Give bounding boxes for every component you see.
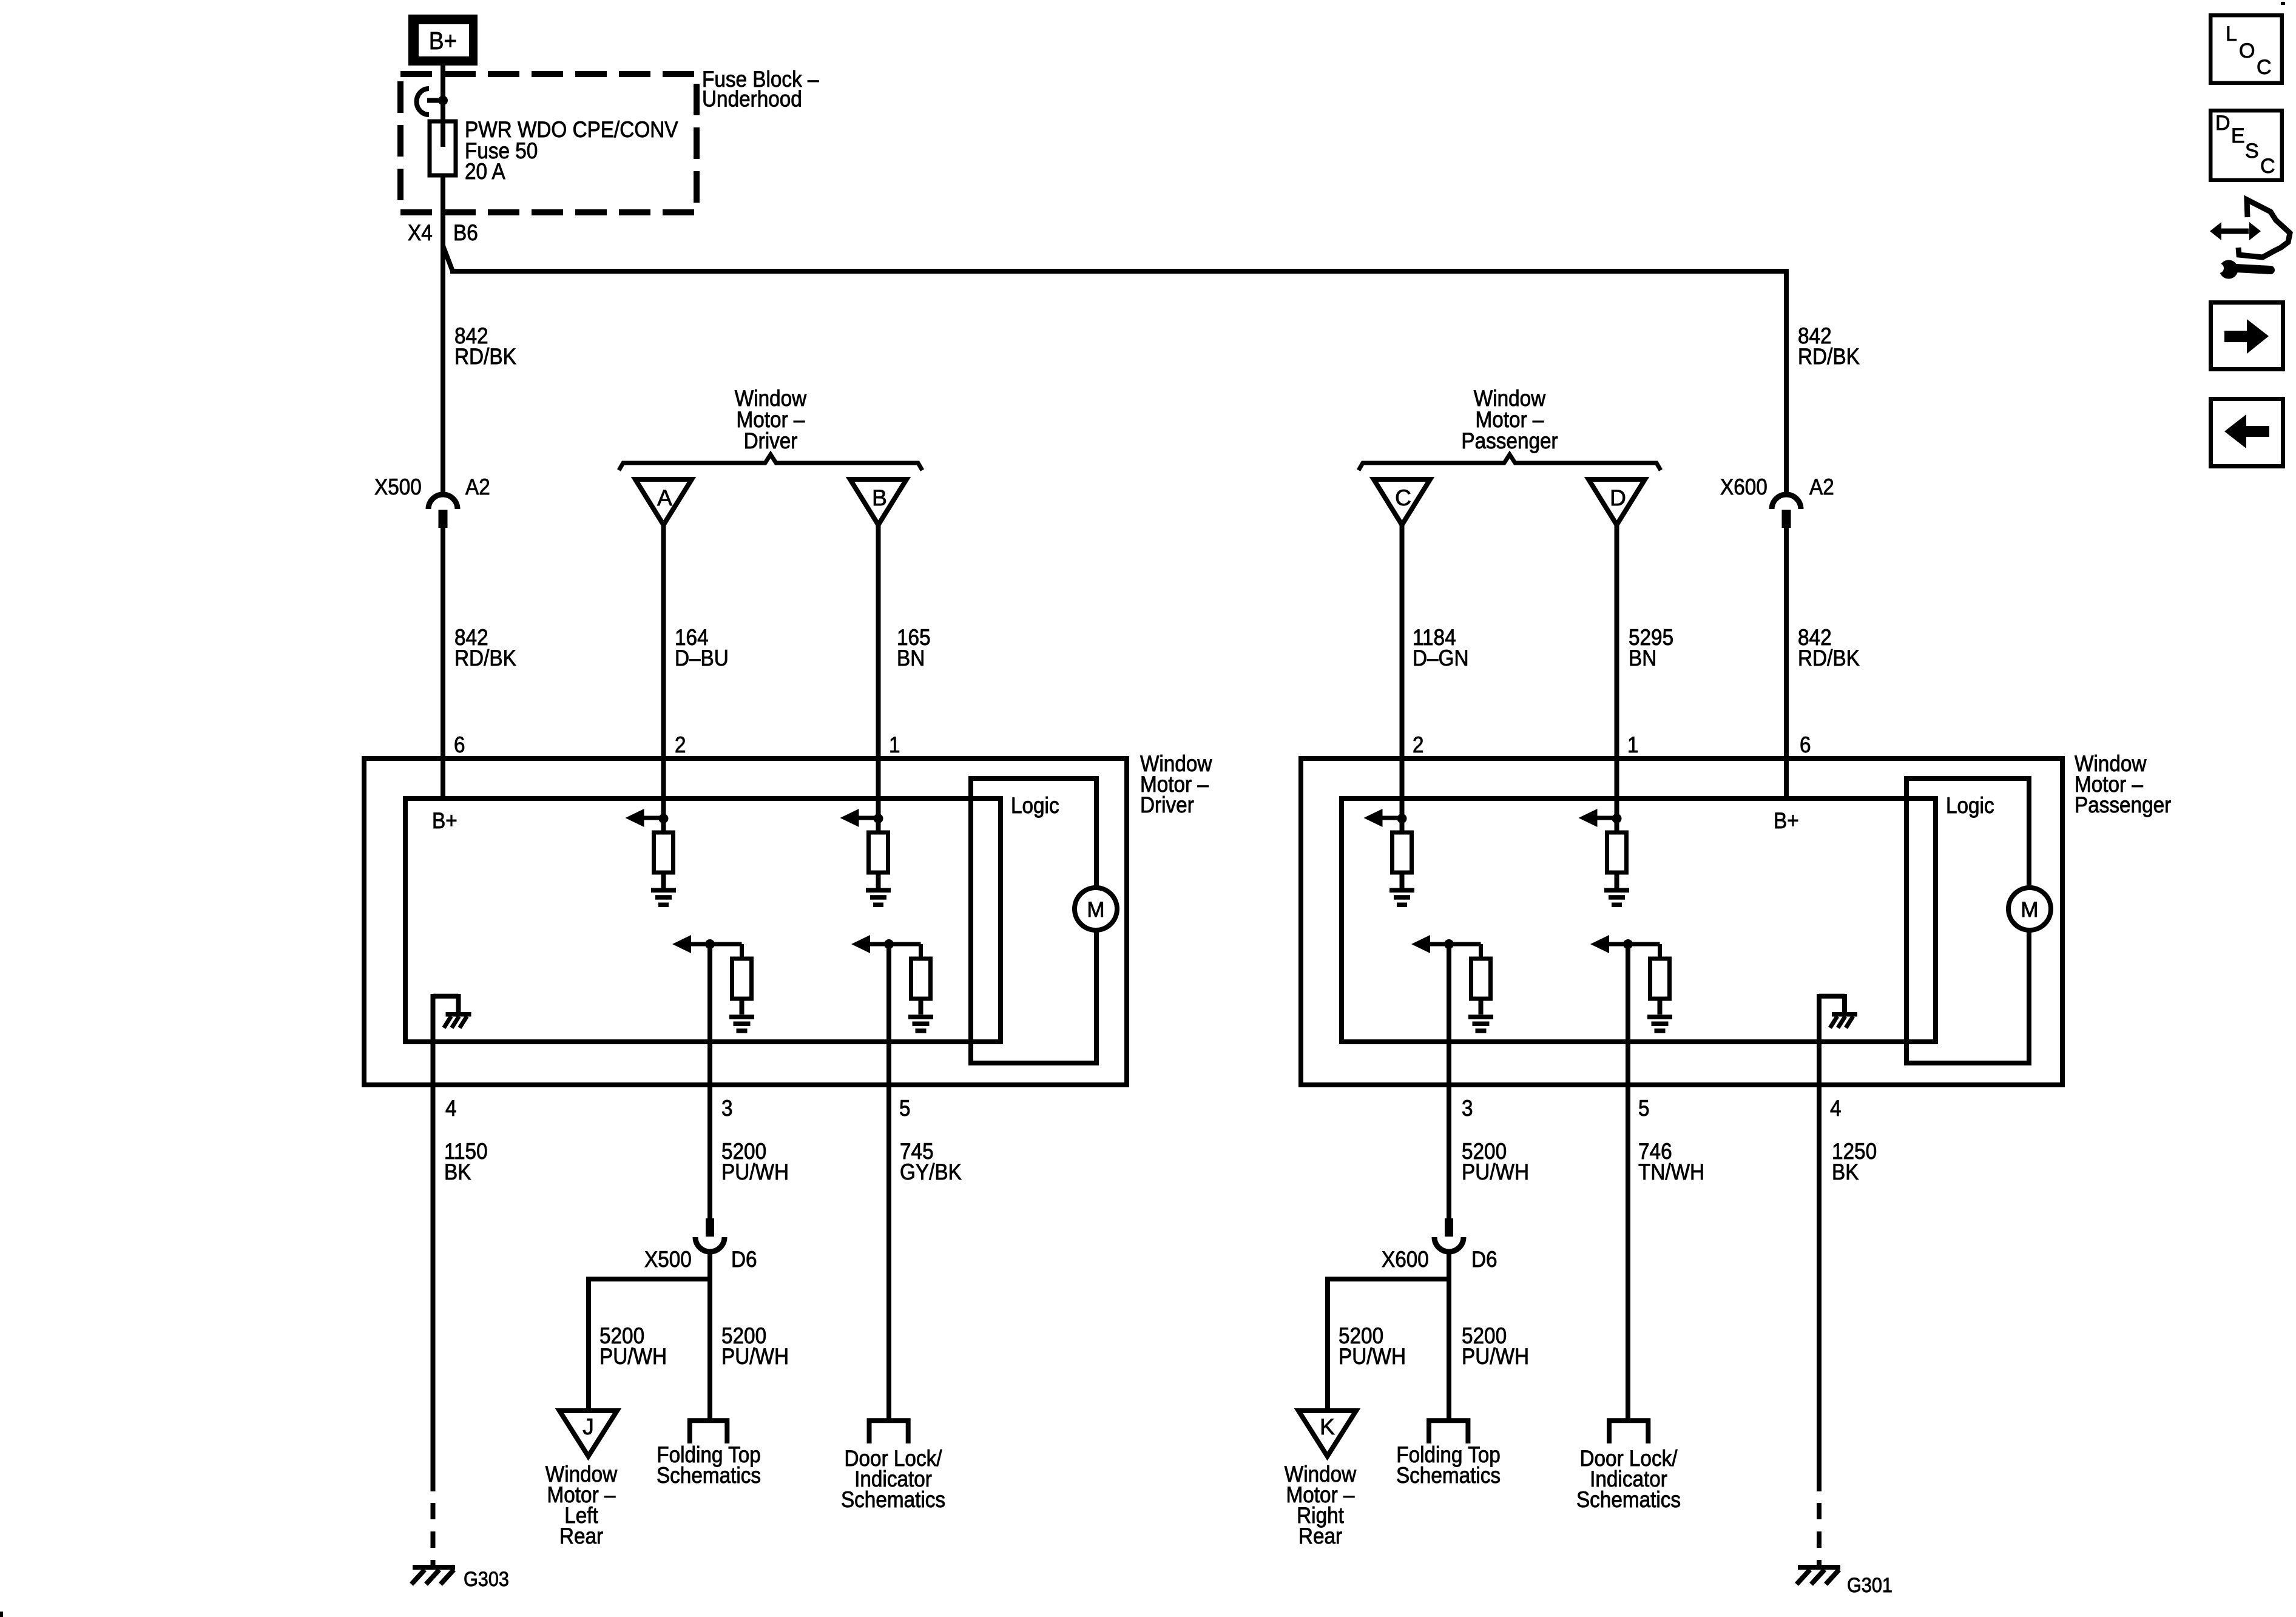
pin 1 label (driver) <box>889 732 900 757</box>
svg-text:O: O <box>2239 39 2255 62</box>
svg-text:Driver: Driver <box>744 428 798 453</box>
pin 1 label (passenger) <box>1627 732 1639 757</box>
wire pin 4 passenger (1250 BK) <box>1817 996 1822 1491</box>
connector triangle B <box>850 479 907 525</box>
svg-text:X600: X600 <box>1720 474 1768 499</box>
label Window Motor - Left Rear <box>545 1462 618 1548</box>
dashed wire to G303 <box>431 1503 436 1567</box>
svg-text:BK: BK <box>1832 1160 1859 1184</box>
label 5200 PU/WH (driver pin 3) <box>721 1139 789 1184</box>
label X500 (A2) <box>374 474 422 499</box>
label 842 RD/BK left lower <box>454 625 516 670</box>
chassis ground hook (driver pin 4) <box>433 994 471 1028</box>
svg-text:A: A <box>657 485 672 510</box>
wire passenger pin 3 to X600 D6 <box>1447 944 1451 1220</box>
pin 2 label (passenger) <box>1413 732 1424 757</box>
svg-text:GY/BK: GY/BK <box>900 1160 962 1184</box>
svg-text:X4: X4 <box>408 220 433 245</box>
svg-text:D6: D6 <box>731 1247 757 1272</box>
pin 4 label (driver) <box>445 1096 457 1121</box>
wire passenger pin 5 to door lock <box>1626 944 1630 1422</box>
window motor driver outer box <box>364 758 1127 1085</box>
wire split to folding top (passenger) <box>1447 1279 1451 1422</box>
wire pin 4 driver (1150 BK) <box>431 996 436 1491</box>
label B+ (passenger) <box>1774 808 1799 833</box>
icon box arrow right <box>2211 303 2283 370</box>
ground G303 <box>411 1565 455 1584</box>
pin 4 label (passenger) <box>1830 1096 1842 1121</box>
svg-text:5: 5 <box>899 1096 911 1121</box>
label X600 (A2) <box>1720 474 1768 499</box>
svg-text:2: 2 <box>1413 732 1424 757</box>
pin 6 label (driver) <box>454 732 465 757</box>
motor M (passenger) <box>2008 888 2051 930</box>
logic box (passenger) <box>1906 778 2029 1063</box>
label Folding Top Schematics (driver) <box>657 1442 761 1488</box>
svg-text:G301: G301 <box>1847 1574 1893 1597</box>
terminal folding top schematics (driver) <box>690 1420 728 1443</box>
wire branch to triangle K <box>1325 1279 1449 1412</box>
clamp resistor unit driver pin 3 <box>672 935 754 1033</box>
label Window Motor - Passenger (box) <box>2075 751 2171 817</box>
icon connector-repair double arrow <box>2210 222 2261 240</box>
wire 165 BN (B to pin 1) <box>876 523 881 819</box>
ground G301 <box>1797 1565 1840 1584</box>
label 745 GY/BK <box>900 1139 962 1184</box>
connector X500 pin A2 <box>428 495 458 528</box>
connector X500 pin D6 <box>695 1218 724 1252</box>
label G301 <box>1847 1574 1893 1597</box>
terminal folding top schematics (passenger) <box>1429 1420 1468 1443</box>
window motor driver inner box <box>405 798 1001 1042</box>
label Window Motor - Driver (box) <box>1140 751 1212 817</box>
label Window Motor - Passenger (brace) <box>1461 386 1558 453</box>
svg-text:B6: B6 <box>453 220 478 245</box>
wire driver pin 5 to door lock <box>886 944 891 1422</box>
svg-text:L: L <box>2226 22 2237 46</box>
svg-text:A2: A2 <box>1809 474 1834 499</box>
label D6 (X600) <box>1471 1247 1497 1272</box>
wire 5295 BN (D to pin 1) <box>1615 523 1619 819</box>
label 842 RD/BK top right <box>1798 323 1860 369</box>
icon box DESC <box>2210 110 2282 180</box>
window motor passenger inner box <box>1342 798 1936 1042</box>
label Logic (passenger) <box>1946 793 1994 818</box>
label Fuse Block - Underhood <box>702 67 819 112</box>
svg-text:X500: X500 <box>374 474 422 499</box>
svg-text:BN: BN <box>1629 646 1656 670</box>
clamp resistor unit driver pin 1 <box>840 809 891 907</box>
wire X600 D6 to split <box>1447 1250 1451 1281</box>
label 5200 PU/WH (folding top driver) <box>721 1323 789 1369</box>
wire B+ to fuse <box>441 63 445 124</box>
svg-text:PU/WH: PU/WH <box>721 1160 789 1184</box>
svg-text:Schematics: Schematics <box>1396 1463 1501 1488</box>
label Window Motor - Driver (brace) <box>735 386 807 453</box>
connector triangle A <box>635 479 692 525</box>
svg-text:PU/WH: PU/WH <box>1339 1344 1406 1369</box>
label A2 (X600) <box>1809 474 1834 499</box>
svg-text:PU/WH: PU/WH <box>1462 1160 1529 1184</box>
label 5200 PU/WH (J branch) <box>599 1323 667 1369</box>
svg-text:C: C <box>1395 485 1411 510</box>
clamp resistor unit passenger pin 2 <box>1364 809 1415 907</box>
wire 842 RD/BK X600 to passenger pin 6 <box>1784 527 1789 798</box>
wire 1184 D-GN (C to pin 2) <box>1400 523 1405 819</box>
svg-text:BK: BK <box>444 1160 471 1184</box>
svg-text:D6: D6 <box>1471 1247 1497 1272</box>
label 164 D-BU <box>675 625 729 670</box>
svg-text:X500: X500 <box>644 1247 692 1272</box>
fuse F50 PWR WDO CPE/CONV 20A <box>430 117 678 184</box>
icon box arrow left <box>2211 399 2283 467</box>
pin 3 label (driver) <box>721 1096 733 1121</box>
label Window Motor - Right Rear <box>1285 1462 1357 1548</box>
svg-text:4: 4 <box>445 1096 457 1121</box>
dashed wire to G301 <box>1817 1503 1822 1567</box>
window motor passenger outer box <box>1301 758 2062 1085</box>
connector triangle D <box>1589 479 1645 525</box>
svg-text:K: K <box>1320 1414 1335 1439</box>
svg-text:M: M <box>2021 898 2038 922</box>
label 1150 BK <box>444 1139 488 1184</box>
svg-text:C: C <box>2260 155 2275 178</box>
label 5200 PU/WH (K branch) <box>1339 1323 1406 1369</box>
wire split to folding top (driver) <box>707 1279 712 1422</box>
svg-text:5: 5 <box>1638 1096 1650 1121</box>
wire 164 D-BU (A to pin 2) <box>661 523 666 819</box>
svg-text:RD/BK: RD/BK <box>1798 646 1860 670</box>
svg-text:20 A: 20 A <box>465 159 505 184</box>
svg-text:Rear: Rear <box>559 1524 603 1548</box>
pin 5 label (passenger) <box>1638 1096 1650 1121</box>
svg-text:PU/WH: PU/WH <box>1462 1344 1529 1369</box>
svg-text:S: S <box>2245 140 2259 163</box>
label X500 (D6) <box>644 1247 692 1272</box>
pin 2 label (driver) <box>675 732 686 757</box>
wire 842 RD/BK X500 to driver pin 6 <box>441 527 445 798</box>
label X600 (D6) <box>1382 1247 1429 1272</box>
label 5200 PU/WH (passenger pin 3) <box>1462 1139 1529 1184</box>
label 1250 BK <box>1832 1139 1877 1184</box>
label A2 (X500) <box>465 474 490 499</box>
svg-text:RD/BK: RD/BK <box>454 344 516 369</box>
chassis ground hook (passenger pin 4) <box>1819 994 1857 1028</box>
wire 842 RD/BK fuse output down to X500 A2 <box>441 175 445 495</box>
clamp resistor unit driver pin 5 <box>851 935 933 1033</box>
svg-text:Passenger: Passenger <box>2075 792 2171 817</box>
svg-text:D: D <box>2215 112 2230 135</box>
label Logic (driver) <box>1011 793 1059 818</box>
svg-text:Driver: Driver <box>1140 792 1194 817</box>
svg-text:B: B <box>872 485 887 510</box>
connector X600 pin A2 <box>1772 495 1801 528</box>
svg-text:RD/BK: RD/BK <box>1798 344 1860 369</box>
svg-text:X600: X600 <box>1382 1247 1429 1272</box>
svg-text:1: 1 <box>1627 732 1639 757</box>
svg-text:3: 3 <box>1462 1096 1473 1121</box>
power terminal B+ <box>408 15 478 66</box>
label 5295 BN <box>1629 625 1673 670</box>
svg-text:B+: B+ <box>1774 808 1799 833</box>
wire branch 842 RD/BK to passenger side <box>443 246 1786 495</box>
svg-text:Schematics: Schematics <box>1576 1487 1681 1512</box>
connector X600 pin D6 <box>1434 1218 1464 1252</box>
stray dot top right <box>2281 2 2285 5</box>
svg-text:TN/WH: TN/WH <box>1638 1160 1704 1184</box>
pin label B6 <box>453 220 478 245</box>
svg-text:1: 1 <box>889 732 900 757</box>
svg-text:A2: A2 <box>465 474 490 499</box>
brace Window Motor - Passenger <box>1359 454 1661 470</box>
connector triangle C <box>1374 479 1430 525</box>
label 842 RD/BK right lower <box>1798 625 1860 670</box>
svg-text:M: M <box>1087 898 1104 922</box>
label D6 (X500) <box>731 1247 757 1272</box>
clamp resistor unit driver pin 2 <box>626 809 677 907</box>
svg-text:D: D <box>1610 485 1626 510</box>
wire X500 D6 to split <box>707 1250 712 1281</box>
label G303 <box>464 1568 509 1591</box>
svg-text:D–GN: D–GN <box>1413 646 1469 670</box>
svg-text:6: 6 <box>1800 732 1811 757</box>
svg-text:Schematics: Schematics <box>841 1487 945 1512</box>
svg-text:PU/WH: PU/WH <box>721 1344 789 1369</box>
svg-text:J: J <box>582 1414 594 1439</box>
icon box LOC <box>2210 15 2282 83</box>
icon wrench <box>2207 260 2271 279</box>
label 5200 PU/WH (folding top passenger) <box>1462 1323 1529 1369</box>
svg-text:C: C <box>2257 56 2272 79</box>
svg-text:Underhood: Underhood <box>702 87 802 112</box>
svg-text:E: E <box>2231 124 2245 147</box>
brace Window Motor - Driver <box>619 454 922 470</box>
svg-text:3: 3 <box>721 1096 733 1121</box>
clamp resistor unit passenger pin 3 <box>1411 935 1493 1033</box>
label 842 RD/BK top left <box>454 323 516 369</box>
pin label X4 <box>408 220 433 245</box>
clamp resistor unit passenger pin 1 <box>1579 809 1630 907</box>
stray dot bottom left <box>0 1612 3 1617</box>
svg-text:B+: B+ <box>432 808 458 833</box>
svg-text:BN: BN <box>897 646 925 670</box>
pin 5 label (driver) <box>899 1096 911 1121</box>
pin 6 label (passenger) <box>1800 732 1811 757</box>
svg-text:RD/BK: RD/BK <box>454 646 516 670</box>
svg-text:Logic: Logic <box>1011 793 1059 818</box>
wire driver pin 3 to X500 D6 <box>707 944 712 1220</box>
label Folding Top Schematics (passenger) <box>1396 1442 1501 1488</box>
junction dot at fuse input <box>438 96 448 106</box>
fuse block - underhood dashed box <box>400 74 697 212</box>
terminal door lock schematics (passenger) <box>1609 1420 1648 1443</box>
fuse element hook <box>417 89 443 115</box>
icon connector outline <box>2238 200 2290 257</box>
svg-text:6: 6 <box>454 732 465 757</box>
svg-text:Rear: Rear <box>1298 1524 1342 1548</box>
logic box (driver) <box>971 778 1096 1063</box>
svg-text:D–BU: D–BU <box>675 646 729 670</box>
motor M (driver) <box>1075 888 1117 930</box>
connector triangle J <box>559 1411 617 1456</box>
label 1184 D-GN <box>1413 625 1469 670</box>
connector triangle K <box>1298 1411 1356 1456</box>
pin 3 label (passenger) <box>1462 1096 1473 1121</box>
label 746 TN/WH <box>1638 1139 1704 1184</box>
svg-text:Passenger: Passenger <box>1461 428 1558 453</box>
svg-text:G303: G303 <box>464 1568 509 1591</box>
clamp resistor unit passenger pin 5 <box>1590 935 1672 1033</box>
terminal door lock schematics (driver) <box>869 1420 908 1443</box>
label 165 BN <box>897 625 931 670</box>
svg-text:4: 4 <box>1830 1096 1842 1121</box>
label Door Lock Indicator Schematics (driver) <box>841 1446 945 1512</box>
label B+ (driver) <box>432 808 458 833</box>
svg-text:2: 2 <box>675 732 686 757</box>
wire branch to triangle J <box>586 1279 710 1412</box>
svg-text:Schematics: Schematics <box>657 1463 761 1488</box>
svg-text:Logic: Logic <box>1946 793 1994 818</box>
label Door Lock Indicator Schematics (passenger) <box>1576 1446 1681 1512</box>
svg-text:PU/WH: PU/WH <box>599 1344 667 1369</box>
svg-text:B+: B+ <box>429 27 457 55</box>
